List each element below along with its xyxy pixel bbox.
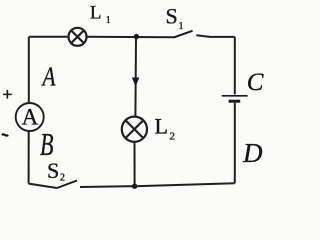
svg-text:C: C [247,69,264,96]
battery cell long plate [222,95,248,97]
wire middle lower vertical [134,142,136,186]
node bottom junction [132,184,137,189]
wire middle upper vertical [134,37,137,117]
switch S1 blade [174,31,193,38]
svg-text:2: 2 [60,173,65,184]
current arrow [132,78,139,87]
wire bottom-left [29,184,57,188]
wire right upper vertical [234,37,236,95]
wire left lower vertical [28,131,30,183]
svg-text:A: A [22,105,39,130]
switch S2 blade [57,181,77,189]
svg-text:1: 1 [106,15,111,26]
svg-text:L: L [155,113,168,138]
svg-text:S: S [166,3,178,28]
svg-text:+: + [2,85,12,105]
battery cell short plate [229,100,241,103]
svg-text:1: 1 [179,21,184,32]
svg-text:D: D [242,138,263,168]
wire top-left horizontal [29,36,69,38]
ammeter A1 [16,103,44,131]
lamp L1 [69,28,87,46]
svg-text:A: A [41,61,56,91]
wire bottom-middle [80,185,135,188]
wire left upper vertical [28,37,30,103]
wire top-right [196,35,235,37]
svg-text:2: 2 [170,131,176,143]
label minus [2,134,9,135]
wire right lower vertical [234,103,236,184]
lamp L2 [122,117,147,142]
svg-text:B: B [40,126,54,162]
node top junction [134,34,139,39]
wire bottom-right [135,183,235,186]
svg-text:L: L [90,2,102,23]
wire top-middle [86,36,174,38]
